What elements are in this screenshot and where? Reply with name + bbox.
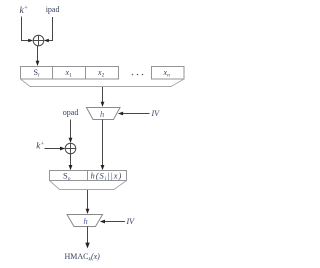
svg-text:h: h [84,216,88,226]
XOR gate 2 [65,143,76,154]
svg-text:HMACk(x): HMACk(x) [65,252,101,263]
wire opad to XOR2 [70,120,72,140]
svg-text:IV: IV [151,109,161,118]
funnel collector 1 [21,79,185,87]
XOR gate 1 [33,35,44,46]
wire h1 to h(Si|x) block [102,120,104,167]
block So | h(Si||x) [50,171,127,181]
wire ipad to XOR1 [47,17,53,41]
hash trapezoid h1 [87,108,121,120]
node ellipsis dots [132,74,144,76]
block row: Si | x1 | x2 [21,67,119,80]
wire k+ to XOR2 [45,148,62,150]
block xn [152,67,185,80]
wire h2 to output [87,227,89,245]
wire IV1 to h1 [122,113,150,115]
svg-text:ipad: ipad [46,5,60,14]
wire funnel1 to h1 [102,87,104,104]
hash trapezoid h2 [67,215,103,227]
svg-text:h: h [100,109,104,119]
wire XOR1 to block row [37,46,39,63]
wire k+ to XOR1 [22,17,30,41]
svg-text:opad: opad [63,108,79,117]
funnel collector 2 [50,181,127,190]
wire IV2 to h2 [104,221,126,223]
wire funnel2 to h2 [87,190,89,211]
svg-text:h(Si||x): h(Si||x) [91,170,123,182]
wire XOR2 to So block [70,154,72,167]
svg-text:IV: IV [126,217,136,226]
